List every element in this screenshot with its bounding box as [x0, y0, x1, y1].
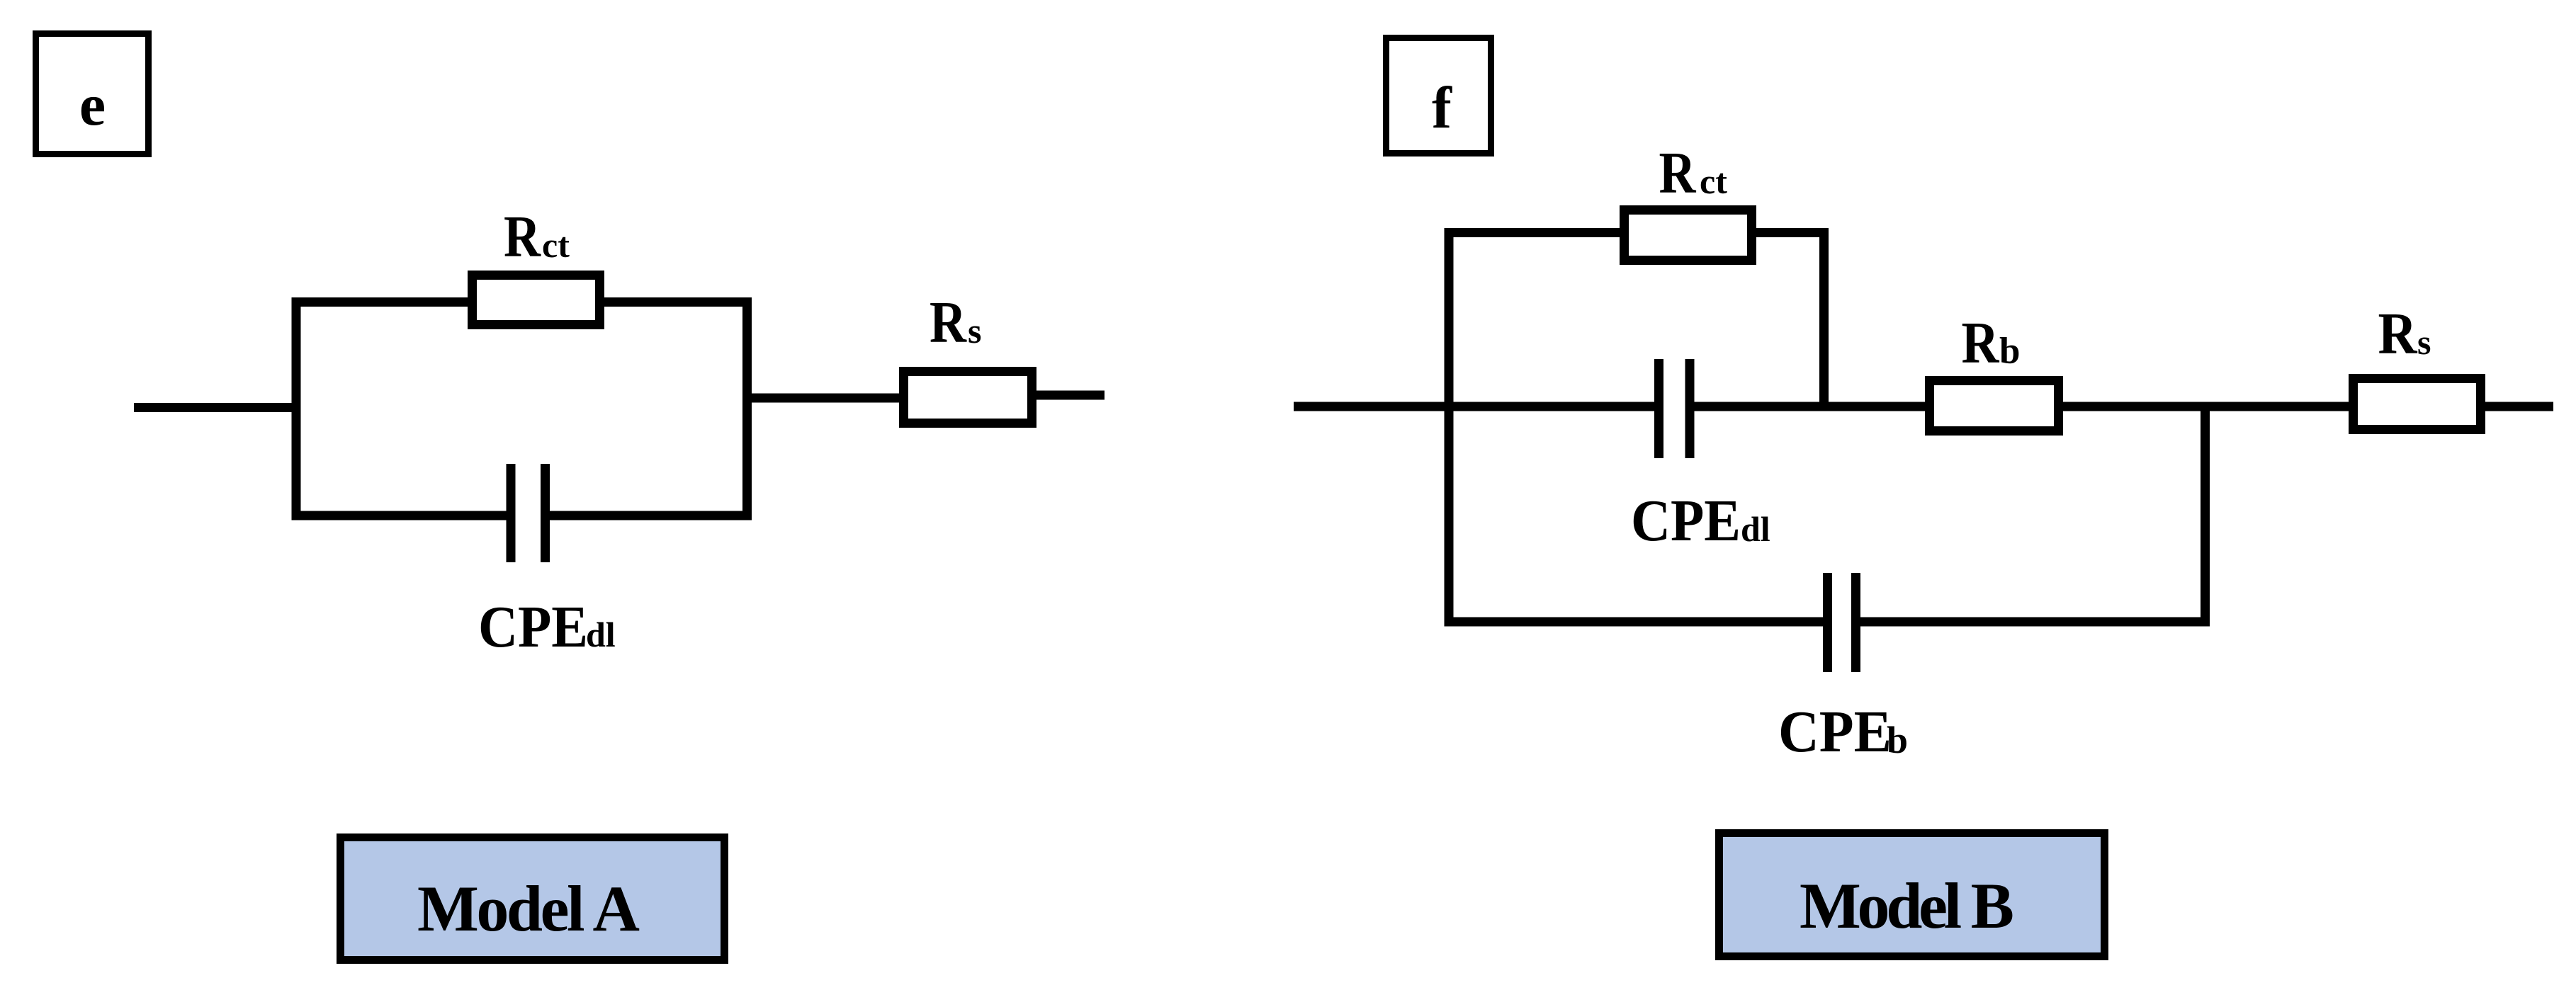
- svg-text:Model A: Model A: [417, 872, 640, 945]
- svg-text:R: R: [2378, 301, 2418, 367]
- svg-text:CPE: CPE: [1631, 488, 1741, 554]
- svg-text:f: f: [1432, 75, 1452, 141]
- svg-text:R: R: [504, 204, 541, 270]
- svg-text:b: b: [1999, 331, 2020, 372]
- svg-text:s: s: [2417, 322, 2431, 362]
- svg-text:ct: ct: [1700, 161, 1727, 201]
- svg-text:s: s: [968, 311, 981, 351]
- svg-text:dl: dl: [586, 615, 616, 654]
- svg-text:R: R: [930, 290, 967, 355]
- svg-text:CPE: CPE: [1778, 699, 1892, 765]
- svg-text:ct: ct: [542, 225, 570, 265]
- svg-text:dl: dl: [1741, 509, 1770, 549]
- svg-text:R: R: [1962, 310, 2000, 376]
- svg-text:e: e: [79, 72, 106, 138]
- svg-text:b: b: [1887, 719, 1908, 761]
- svg-text:CPE: CPE: [478, 594, 588, 660]
- svg-text:R: R: [1659, 140, 1697, 206]
- svg-text:Model B: Model B: [1800, 870, 2014, 942]
